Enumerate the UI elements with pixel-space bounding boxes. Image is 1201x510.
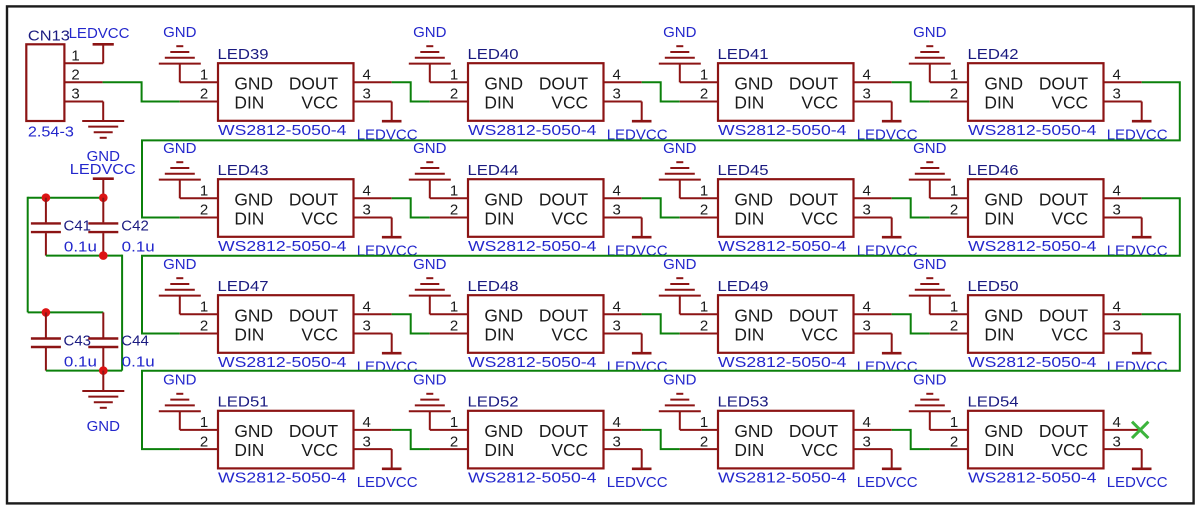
ground at LED50 pin 1 [909, 256, 951, 314]
power flag LEDVCC at LED48 pin 3 [607, 334, 668, 376]
svg-text:2: 2 [950, 202, 958, 219]
power flag LEDVCC at LED49 pin 3 [857, 334, 918, 376]
power flag LEDVCC at LED46 pin 3 [1107, 218, 1168, 260]
svg-text:GND: GND [413, 256, 447, 273]
LED41 ref label [718, 46, 769, 63]
svg-text:0.1u: 0.1u [122, 238, 155, 255]
svg-text:DIN: DIN [984, 208, 1014, 228]
svg-text:GND: GND [87, 418, 121, 435]
svg-text:3: 3 [613, 86, 621, 103]
svg-text:DIN: DIN [484, 208, 514, 228]
svg-text:DOUT: DOUT [539, 73, 589, 93]
power flag LEDVCC at LED40 pin 3 [607, 102, 668, 144]
svg-text:1: 1 [200, 183, 208, 200]
ground at LED41 pin 1 [659, 24, 701, 82]
wire LEDVCC rail lower [28, 311, 104, 313]
svg-text:DIN: DIN [734, 92, 764, 112]
LED39 pin 1 GND [180, 67, 218, 84]
svg-text:DOUT: DOUT [289, 305, 339, 325]
junction at C43 top [42, 308, 51, 317]
LED41 pin 2 DIN [680, 86, 718, 103]
LED module LED45 [718, 179, 854, 237]
svg-text:DIN: DIN [734, 208, 764, 228]
svg-text:GND: GND [234, 305, 273, 325]
svg-text:GND: GND [734, 421, 773, 441]
wire GND rail upper [46, 255, 122, 371]
svg-text:LED41: LED41 [718, 46, 769, 63]
svg-text:DOUT: DOUT [1039, 189, 1089, 209]
capacitor C42 [88, 198, 118, 256]
svg-text:VCC: VCC [301, 324, 338, 344]
LED53 ref label [718, 394, 769, 411]
svg-text:VCC: VCC [551, 208, 588, 228]
svg-text:DIN: DIN [484, 440, 514, 460]
svg-text:GND: GND [234, 73, 273, 93]
svg-text:1: 1 [450, 299, 458, 316]
LED44 pin 4 DOUT [604, 183, 642, 200]
C43 value label 0.1u [64, 353, 97, 370]
svg-text:WS2812-5050-4: WS2812-5050-4 [718, 122, 847, 139]
svg-text:4: 4 [1113, 67, 1121, 84]
LED42 pin 3 VCC [1104, 86, 1142, 103]
LED48 value label WS2812-5050-4 [468, 354, 597, 371]
power flag LEDVCC at LED53 pin 3 [857, 449, 918, 491]
LED module LED50 [968, 295, 1104, 353]
LED51 pin 1 GND [180, 414, 218, 431]
LED52 pin 4 DOUT [604, 414, 642, 431]
power flag LEDVCC at LED51 pin 3 [357, 449, 418, 491]
svg-text:VCC: VCC [1051, 208, 1088, 228]
svg-text:2: 2 [950, 433, 958, 450]
svg-text:LEDVCC: LEDVCC [1107, 359, 1168, 376]
C42 value label 0.1u [122, 238, 155, 255]
svg-text:LED39: LED39 [218, 46, 269, 63]
svg-text:WS2812-5050-4: WS2812-5050-4 [468, 354, 597, 371]
svg-text:3: 3 [1113, 202, 1121, 219]
svg-text:GND: GND [234, 189, 273, 209]
power flag LEDVCC at LED43 pin 3 [357, 218, 418, 260]
svg-text:4: 4 [363, 414, 371, 431]
LED40 pin 3 VCC [604, 86, 642, 103]
svg-text:GND: GND [734, 305, 773, 325]
ground at LED47 pin 1 [159, 256, 201, 314]
LED44 pin 2 DIN [430, 202, 468, 219]
svg-text:GND: GND [913, 140, 947, 157]
svg-text:GND: GND [984, 305, 1023, 325]
power flag LEDVCC at LED45 pin 3 [857, 218, 918, 260]
capacitor C41 [31, 198, 61, 256]
LED46 pin 1 GND [930, 183, 968, 200]
LED51 pin 4 DOUT [354, 414, 392, 431]
svg-text:GND: GND [984, 73, 1023, 93]
svg-text:GND: GND [913, 372, 947, 389]
svg-text:DOUT: DOUT [789, 73, 839, 93]
svg-text:DIN: DIN [984, 324, 1014, 344]
C44 ref label [121, 333, 149, 350]
svg-text:VCC: VCC [1051, 324, 1088, 344]
svg-text:VCC: VCC [551, 324, 588, 344]
svg-text:VCC: VCC [301, 208, 338, 228]
power flag LEDVCC at CN13 pin 1 [69, 25, 130, 63]
LED54 pin 3 VCC [1104, 433, 1142, 450]
svg-text:DOUT: DOUT [789, 189, 839, 209]
wire LED43 DOUT to LED44 DIN [392, 198, 430, 217]
svg-text:GND: GND [484, 305, 523, 325]
LED48 pin 1 GND [430, 299, 468, 316]
svg-text:GND: GND [163, 256, 197, 273]
LED module LED46 [968, 179, 1104, 237]
LED39 ref label [218, 46, 269, 63]
svg-text:VCC: VCC [1051, 440, 1088, 460]
svg-text:GND: GND [913, 256, 947, 273]
svg-text:LEDVCC: LEDVCC [607, 474, 668, 491]
svg-text:3: 3 [613, 433, 621, 450]
LED43 pin 2 DIN [180, 202, 218, 219]
LED42 value label WS2812-5050-4 [968, 122, 1097, 139]
svg-text:2: 2 [200, 433, 208, 450]
svg-text:GND: GND [234, 421, 273, 441]
LED40 pin 1 GND [430, 67, 468, 84]
ground at LED39 pin 1 [159, 24, 201, 82]
capacitor C44 [88, 312, 118, 370]
svg-text:LED42: LED42 [968, 46, 1019, 63]
svg-text:LED54: LED54 [968, 394, 1019, 411]
svg-text:LEDVCC: LEDVCC [857, 359, 918, 376]
wire LED48 DOUT to LED49 DIN [642, 314, 680, 333]
wire GND rail lower [46, 370, 122, 372]
svg-text:LEDVCC: LEDVCC [357, 359, 418, 376]
svg-text:GND: GND [663, 372, 697, 389]
LED39 pin 4 DOUT [354, 67, 392, 84]
C43 ref label [64, 333, 92, 350]
LED module LED39 [218, 63, 354, 121]
junction at C44 bottom [99, 366, 108, 375]
LED41 pin 4 DOUT [854, 67, 892, 84]
svg-text:1: 1 [450, 414, 458, 431]
LED54 value label WS2812-5050-4 [968, 469, 1097, 486]
LED45 pin 4 DOUT [854, 183, 892, 200]
LED41 pin 3 VCC [854, 86, 892, 103]
junction at C41 top [42, 193, 51, 202]
svg-text:DIN: DIN [734, 440, 764, 460]
LED47 pin 1 GND [180, 299, 218, 316]
LED50 pin 3 VCC [1104, 318, 1142, 335]
svg-text:4: 4 [613, 183, 621, 200]
CN13 ref label [28, 28, 70, 45]
wire LEDVCC rail upper [46, 197, 103, 199]
LED49 pin 4 DOUT [854, 299, 892, 316]
svg-text:GND: GND [734, 73, 773, 93]
svg-text:WS2812-5050-4: WS2812-5050-4 [968, 122, 1097, 139]
svg-text:3: 3 [863, 202, 871, 219]
svg-text:DOUT: DOUT [539, 421, 589, 441]
svg-text:4: 4 [863, 414, 871, 431]
svg-text:1: 1 [700, 67, 708, 84]
svg-text:DIN: DIN [234, 92, 264, 112]
svg-text:VCC: VCC [801, 92, 838, 112]
CN13 pin 2 [64, 67, 102, 84]
svg-text:GND: GND [984, 189, 1023, 209]
wire LED52 DOUT to LED53 DIN [642, 430, 680, 449]
LED41 pin 1 GND [680, 67, 718, 84]
wire LEDVCC rail left vertical [28, 197, 46, 313]
svg-text:2: 2 [700, 86, 708, 103]
LED47 pin 3 VCC [354, 318, 392, 335]
ground at CN13 pin 3 [82, 102, 124, 138]
LED47 pin 2 DIN [180, 318, 218, 335]
LED49 ref label [718, 278, 769, 295]
LED52 pin 2 DIN [430, 433, 468, 450]
svg-text:DOUT: DOUT [289, 189, 339, 209]
LED43 ref label [218, 162, 269, 179]
svg-text:1: 1 [200, 299, 208, 316]
svg-text:GND: GND [163, 140, 197, 157]
svg-text:LED44: LED44 [468, 162, 519, 179]
LED52 ref label [468, 394, 519, 411]
svg-text:1: 1 [450, 183, 458, 200]
wire LED40 DOUT to LED41 DIN [642, 82, 680, 101]
svg-text:2: 2 [450, 433, 458, 450]
junction at C42 bottom [99, 251, 108, 260]
svg-text:3: 3 [863, 318, 871, 335]
svg-text:WS2812-5050-4: WS2812-5050-4 [968, 354, 1097, 371]
svg-text:3: 3 [71, 86, 79, 103]
ground at LED49 pin 1 [659, 256, 701, 314]
LED46 pin 3 VCC [1104, 202, 1142, 219]
LED module LED40 [468, 63, 604, 121]
LED49 value label WS2812-5050-4 [718, 354, 847, 371]
LED module LED51 [218, 411, 354, 469]
svg-text:DOUT: DOUT [539, 189, 589, 209]
power flag LEDVCC at LED42 pin 3 [1107, 102, 1168, 144]
svg-text:LEDVCC: LEDVCC [70, 161, 136, 178]
svg-text:LEDVCC: LEDVCC [857, 474, 918, 491]
svg-text:DIN: DIN [734, 324, 764, 344]
C44 value label 0.1u [122, 353, 155, 370]
LED module LED47 [218, 295, 354, 353]
svg-text:DOUT: DOUT [789, 421, 839, 441]
svg-text:3: 3 [363, 433, 371, 450]
svg-text:4: 4 [1113, 183, 1121, 200]
svg-text:2: 2 [200, 202, 208, 219]
svg-text:WS2812-5050-4: WS2812-5050-4 [968, 469, 1097, 486]
LED44 value label WS2812-5050-4 [468, 238, 597, 255]
svg-text:1: 1 [700, 414, 708, 431]
power flag LEDVCC at LED44 pin 3 [607, 218, 668, 260]
LED52 value label WS2812-5050-4 [468, 469, 597, 486]
LED43 pin 3 VCC [354, 202, 392, 219]
svg-text:LEDVCC: LEDVCC [857, 243, 918, 260]
svg-text:WS2812-5050-4: WS2812-5050-4 [468, 469, 597, 486]
wire LED45 DOUT to LED46 DIN [892, 198, 930, 217]
svg-text:LED49: LED49 [718, 278, 769, 295]
svg-text:WS2812-5050-4: WS2812-5050-4 [718, 469, 847, 486]
svg-text:CN13: CN13 [28, 28, 70, 45]
svg-text:GND: GND [484, 421, 523, 441]
LED42 pin 4 DOUT [1104, 67, 1142, 84]
LED53 pin 2 DIN [680, 433, 718, 450]
svg-text:DOUT: DOUT [1039, 305, 1089, 325]
LED39 pin 3 VCC [354, 86, 392, 103]
CN13 pin 1 [64, 48, 103, 65]
LED47 value label WS2812-5050-4 [218, 354, 347, 371]
power flag LEDVCC at LED47 pin 3 [357, 334, 418, 376]
LED46 pin 4 DOUT [1104, 183, 1142, 200]
LED54 pin 2 DIN [930, 433, 968, 450]
svg-text:WS2812-5050-4: WS2812-5050-4 [968, 238, 1097, 255]
power flag LEDVCC at capacitor rail [70, 161, 136, 198]
ground at LED52 pin 1 [409, 372, 451, 430]
svg-text:GND: GND [413, 140, 447, 157]
svg-text:GND: GND [484, 73, 523, 93]
wire LED51 DOUT to LED52 DIN [392, 430, 430, 449]
svg-text:VCC: VCC [301, 440, 338, 460]
ground at LED46 pin 1 [909, 140, 951, 198]
svg-text:GND: GND [663, 256, 697, 273]
svg-text:LEDVCC: LEDVCC [1107, 474, 1168, 491]
wire LED49 DOUT to LED50 DIN [892, 314, 930, 333]
svg-text:4: 4 [613, 67, 621, 84]
LED50 value label WS2812-5050-4 [968, 354, 1097, 371]
svg-text:LED43: LED43 [218, 162, 269, 179]
svg-text:LED50: LED50 [968, 278, 1019, 295]
LED47 pin 4 DOUT [354, 299, 392, 316]
svg-text:2: 2 [950, 86, 958, 103]
svg-text:WS2812-5050-4: WS2812-5050-4 [468, 122, 597, 139]
LED50 pin 2 DIN [930, 318, 968, 335]
power flag LEDVCC at LED52 pin 3 [607, 449, 668, 491]
svg-text:1: 1 [950, 414, 958, 431]
LED40 value label WS2812-5050-4 [468, 122, 597, 139]
LED44 ref label [468, 162, 519, 179]
svg-text:3: 3 [363, 318, 371, 335]
svg-text:2: 2 [950, 318, 958, 335]
svg-text:4: 4 [363, 299, 371, 316]
LED53 value label WS2812-5050-4 [718, 469, 847, 486]
svg-text:LEDVCC: LEDVCC [607, 243, 668, 260]
svg-text:DOUT: DOUT [289, 73, 339, 93]
svg-text:VCC: VCC [801, 324, 838, 344]
wire LED53 DOUT to LED54 DIN [892, 430, 930, 449]
ground at LED43 pin 1 [159, 140, 201, 198]
svg-text:WS2812-5050-4: WS2812-5050-4 [718, 238, 847, 255]
svg-text:WS2812-5050-4: WS2812-5050-4 [218, 469, 347, 486]
ground at LED42 pin 1 [909, 24, 951, 82]
LED module LED54 [968, 411, 1104, 469]
ground at LED45 pin 1 [659, 140, 701, 198]
svg-text:3: 3 [613, 318, 621, 335]
LED45 pin 2 DIN [680, 202, 718, 219]
LED module LED49 [718, 295, 854, 353]
LED54 ref label [968, 394, 1019, 411]
svg-text:4: 4 [363, 67, 371, 84]
power flag LEDVCC at LED50 pin 3 [1107, 334, 1168, 376]
wire CN13 pin 2 to LED39 DIN [103, 82, 180, 101]
svg-text:0.1u: 0.1u [64, 238, 97, 255]
svg-text:3: 3 [1113, 433, 1121, 450]
svg-text:LED51: LED51 [218, 394, 269, 411]
svg-text:2: 2 [700, 202, 708, 219]
LED45 pin 3 VCC [854, 202, 892, 219]
LED43 value label WS2812-5050-4 [218, 238, 347, 255]
svg-text:3: 3 [363, 202, 371, 219]
svg-text:DOUT: DOUT [789, 305, 839, 325]
LED module LED41 [718, 63, 854, 121]
power flag LEDVCC at LED39 pin 3 [357, 102, 418, 144]
LED51 pin 2 DIN [180, 433, 218, 450]
svg-text:1: 1 [700, 299, 708, 316]
svg-text:DIN: DIN [484, 324, 514, 344]
LED40 pin 2 DIN [430, 86, 468, 103]
svg-text:DIN: DIN [984, 440, 1014, 460]
LED51 pin 3 VCC [354, 433, 392, 450]
LED53 pin 1 GND [680, 414, 718, 431]
svg-text:LEDVCC: LEDVCC [1107, 243, 1168, 260]
svg-text:1: 1 [950, 183, 958, 200]
svg-text:LEDVCC: LEDVCC [357, 474, 418, 491]
LED50 ref label [968, 278, 1019, 295]
svg-text:GND: GND [484, 189, 523, 209]
svg-text:DIN: DIN [984, 92, 1014, 112]
ground at capacitor rail [82, 371, 124, 435]
CN13 value label 2.54-3 [28, 124, 74, 141]
svg-text:2: 2 [700, 433, 708, 450]
LED46 pin 2 DIN [930, 202, 968, 219]
svg-text:4: 4 [1113, 299, 1121, 316]
C42 ref label [121, 217, 149, 234]
svg-text:LED45: LED45 [718, 162, 769, 179]
svg-text:C41: C41 [64, 217, 92, 234]
svg-text:LED48: LED48 [468, 278, 519, 295]
svg-text:LEDVCC: LEDVCC [607, 359, 668, 376]
LED54 pin 1 GND [930, 414, 968, 431]
svg-text:DIN: DIN [234, 208, 264, 228]
svg-text:1: 1 [71, 48, 79, 65]
svg-text:DIN: DIN [234, 440, 264, 460]
LED45 ref label [718, 162, 769, 179]
svg-text:4: 4 [863, 183, 871, 200]
LED module LED44 [468, 179, 604, 237]
LED39 value label WS2812-5050-4 [218, 122, 347, 139]
LED44 pin 3 VCC [604, 202, 642, 219]
svg-text:GND: GND [663, 24, 697, 41]
svg-text:1: 1 [450, 67, 458, 84]
svg-text:2: 2 [71, 67, 79, 84]
svg-text:DOUT: DOUT [1039, 421, 1089, 441]
capacitor C43 [31, 312, 61, 370]
svg-text:VCC: VCC [801, 440, 838, 460]
svg-text:DOUT: DOUT [289, 421, 339, 441]
no-connect marker at LED54 DOUT [1132, 422, 1148, 438]
C41 value label 0.1u [64, 238, 97, 255]
svg-text:1: 1 [950, 67, 958, 84]
svg-text:2.54-3: 2.54-3 [28, 124, 74, 141]
svg-text:C42: C42 [121, 217, 149, 234]
ground at LED53 pin 1 [659, 372, 701, 430]
wire LED50 DOUT to LED51 DIN [142, 314, 1180, 449]
svg-text:4: 4 [613, 299, 621, 316]
ground at LED51 pin 1 [159, 372, 201, 430]
svg-text:GND: GND [163, 24, 197, 41]
CN13 pin 3 [64, 86, 103, 103]
svg-text:2: 2 [200, 318, 208, 335]
svg-text:VCC: VCC [1051, 92, 1088, 112]
LED module LED43 [218, 179, 354, 237]
LED47 ref label [218, 278, 269, 295]
svg-text:4: 4 [863, 299, 871, 316]
LED43 pin 4 DOUT [354, 183, 392, 200]
svg-text:2: 2 [200, 86, 208, 103]
